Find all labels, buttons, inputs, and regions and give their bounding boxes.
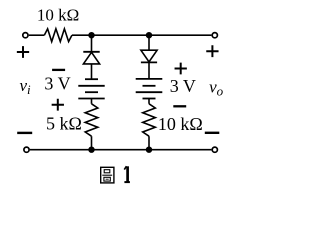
wire: battery V2 to resistor R3	[148, 99, 150, 104]
label: plus sign output polarity	[206, 45, 218, 57]
terminal: input top-left	[23, 33, 28, 38]
wire: node A to node B	[92, 34, 150, 36]
node C junction dot	[88, 147, 94, 153]
diode D1 cathode bar	[83, 51, 99, 53]
label: minus sign battery V2	[173, 105, 186, 107]
wire: D1 anode to battery V1	[91, 64, 93, 79]
node A junction dot	[88, 32, 94, 38]
resistor R1 (10 kOhm series)	[44, 29, 72, 42]
wire: R1 to node A	[72, 34, 92, 36]
terminal: output bottom-right	[212, 147, 217, 152]
diode D2 cathode bar	[141, 61, 157, 63]
battery V1 plate long	[78, 85, 104, 87]
diode D2 triangle (pointing down)	[141, 50, 157, 62]
label: minus sign input polarity	[17, 132, 32, 134]
resistor R2 (5 kOhm shunt)	[85, 104, 98, 136]
terminal: input bottom-left	[24, 147, 29, 152]
battery V1 plate long (plus, bottom)	[78, 98, 104, 100]
wire: R2 to node C	[91, 136, 93, 150]
battery V2 plate long (plus, top)	[136, 78, 163, 80]
node B junction dot	[146, 32, 152, 38]
wire: node B down to diode D2	[148, 35, 150, 50]
wire: bottom rail node C to node D	[92, 149, 150, 151]
terminal: output top-right	[212, 33, 217, 38]
svg-text:3 V: 3 V	[44, 74, 70, 94]
wire: bottom rail left terminal to node C	[30, 149, 92, 151]
label: plus sign battery V2	[175, 63, 187, 75]
wire: R3 to node D	[148, 136, 150, 150]
label: minus sign battery V1	[52, 69, 65, 71]
caption: figure glyph (CJK tu) drawn	[101, 167, 114, 183]
caption: figure number 1 (drawn)	[124, 166, 130, 182]
wire: node B to output terminal	[149, 34, 211, 36]
label: plus sign battery V1	[52, 99, 64, 111]
wire: top-left terminal to R1	[29, 34, 45, 36]
battery V2 plate short	[143, 85, 156, 87]
battery V2 plate long	[136, 91, 163, 93]
wire: D2 cathode to battery V2	[148, 62, 150, 79]
battery V2 plate short (minus, bottom)	[143, 98, 156, 100]
label: plus sign input polarity	[17, 46, 29, 58]
resistor R3 (10 kOhm shunt)	[143, 104, 156, 136]
wire: battery V1 to resistor R2	[91, 99, 93, 104]
wire: bottom rail node D to right terminal	[149, 149, 211, 151]
diode D1 triangle (pointing up)	[83, 52, 99, 64]
label: minus sign output polarity	[205, 132, 220, 134]
node D junction dot	[146, 147, 152, 153]
svg-text:5 kΩ: 5 kΩ	[46, 114, 82, 134]
wire: node A down to diode D1	[91, 35, 93, 52]
svg-text:10 kΩ: 10 kΩ	[158, 114, 203, 134]
svg-text:3 V: 3 V	[170, 76, 196, 96]
battery V1 plate short (minus, top)	[85, 78, 98, 80]
svg-text:10 kΩ: 10 kΩ	[37, 6, 79, 25]
battery V1 plate short	[85, 91, 98, 93]
